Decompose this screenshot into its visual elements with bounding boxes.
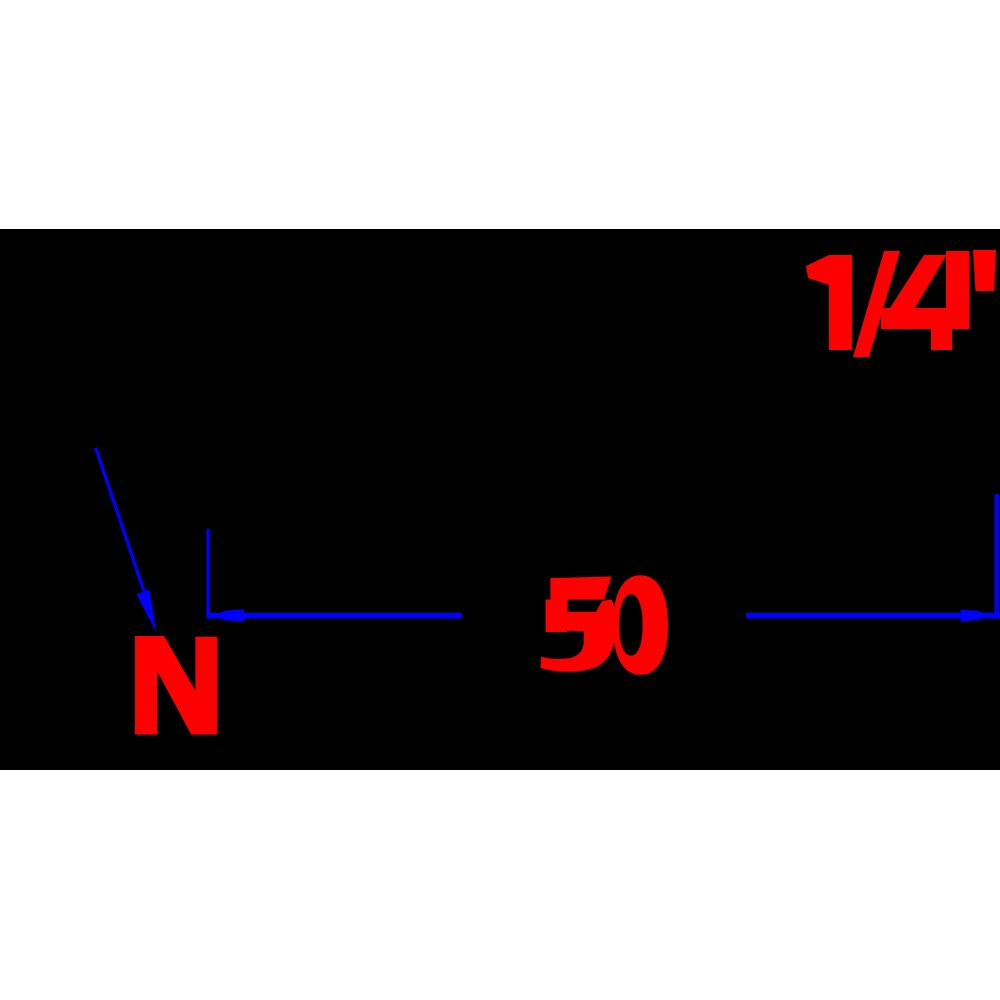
dimension arrowhead left <box>218 609 244 621</box>
black drawing area (photo region) <box>0 229 1000 770</box>
dimension arrowhead right <box>961 610 986 622</box>
leader line (to N) <box>96 448 151 612</box>
leader arrowhead <box>136 590 156 632</box>
label "1/4'" : digit 1 stem <box>829 255 852 350</box>
extension line right <box>995 494 1000 618</box>
digit 4 diagonal <box>890 255 947 308</box>
slash <box>853 251 900 357</box>
label "N" : left bar <box>135 636 157 735</box>
N diagonal <box>157 636 196 735</box>
apostrophe <box>973 250 996 291</box>
digit 4 upper stem <box>946 251 969 329</box>
digit 4 lower stem <box>931 329 952 350</box>
digit 5 bowl <box>541 600 617 672</box>
digit 0 <box>613 575 668 675</box>
dimension line right segment <box>746 613 1000 619</box>
digit 1 flag <box>806 255 829 285</box>
N right bar <box>195 637 217 735</box>
extension line left <box>206 529 209 617</box>
dimension line left segment <box>206 613 462 619</box>
label "50" : digit 5 bar and stem <box>546 577 612 633</box>
digit 4 crossbar <box>881 308 966 329</box>
